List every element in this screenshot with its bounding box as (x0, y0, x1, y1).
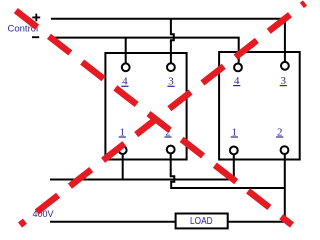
wire LOAD to K2 terminal 2 (228, 221, 286, 223)
wire K1 terminal 3 riser with hop over minus bus (171, 19, 174, 62)
terminal K1-4 (122, 63, 130, 71)
wire K1 terminal 1 stub (122, 155, 124, 180)
terminal K1-2 (167, 146, 175, 154)
SSR box K2 (219, 52, 300, 160)
wire 400V line bus (50, 179, 234, 181)
terminal K2-4 (234, 64, 242, 72)
wire K1 terminal 2 drop with hop over 400V bus (171, 154, 285, 188)
wire K2 terminal 1 stub (233, 155, 235, 180)
wire 400V return to LOAD (50, 221, 176, 223)
wire control minus bus (54, 38, 239, 63)
red cross stroke top-left to bottom-right (15, 10, 292, 225)
wire K2 terminal 2 drop to load line (284, 155, 286, 222)
terminal K1-3 (167, 63, 175, 71)
terminal K2-3 (281, 62, 289, 70)
terminal K1-1 (119, 146, 127, 154)
LOAD box (176, 214, 228, 229)
SSR box K1 (105, 53, 186, 160)
control minus symbol (32, 36, 39, 38)
wire K1 terminal 4 stub (125, 38, 127, 63)
svg-text:LOAD: LOAD (190, 216, 213, 227)
wire control plus bus (51, 19, 285, 61)
terminal K2-1 (230, 147, 238, 155)
terminal K2-2 (281, 146, 289, 154)
control plus symbol (32, 14, 40, 22)
